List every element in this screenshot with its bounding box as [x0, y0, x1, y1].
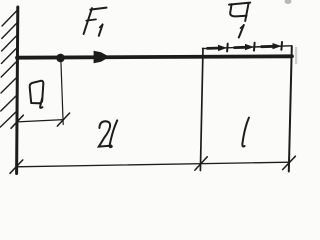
- a1 tick left: [11, 115, 23, 128]
- bottom dimension line: [16, 162, 290, 167]
- force F1 arrowhead: [94, 51, 110, 63]
- bottom tick middle: [195, 157, 208, 170]
- faint scan streak right edge: [295, 47, 297, 64]
- load arrow 3: [262, 42, 283, 50]
- bottom tick left: [10, 160, 23, 173]
- label l (right): [242, 118, 249, 147]
- label q1: [229, 3, 250, 38]
- label F1: [84, 8, 107, 36]
- load arrow 2: [235, 43, 255, 51]
- wall hatching: [0, 10, 17, 127]
- node dot: [56, 54, 65, 63]
- extension line from node: [61, 58, 63, 125]
- a1 tick right: [57, 113, 69, 126]
- wall line: [17, 7, 18, 174]
- bottom tick right: [283, 156, 296, 169]
- load arrow 1: [208, 44, 228, 52]
- a1 dimension line: [17, 120, 63, 122]
- right extension line x=290: [289, 46, 292, 172]
- smudge top right: [285, 0, 292, 4]
- label 2l: [99, 120, 117, 147]
- label a1: [30, 81, 44, 108]
- distributed load line: [203, 46, 291, 49]
- beam: [17, 56, 292, 57]
- left extension line x=202: [200, 48, 203, 170]
